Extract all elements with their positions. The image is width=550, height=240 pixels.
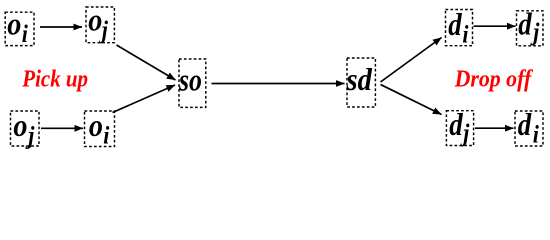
svg-text:i: i (462, 21, 469, 49)
svg-text:d: d (448, 8, 463, 43)
svg-text:o: o (89, 107, 103, 143)
svg-text:i: i (533, 121, 540, 149)
svg-text:sd: sd (346, 62, 373, 98)
svg-text:o: o (13, 107, 27, 143)
svg-text:Drop off: Drop off (454, 66, 534, 92)
svg-text:o: o (88, 2, 102, 38)
svg-text:Pick up: Pick up (21, 65, 88, 92)
svg-text:i: i (22, 21, 29, 49)
svg-text:d: d (518, 7, 533, 42)
svg-text:so: so (178, 63, 202, 98)
svg-text:d: d (518, 108, 533, 143)
svg-text:d: d (449, 108, 464, 143)
svg-text:i: i (103, 122, 110, 150)
svg-text:o: o (7, 6, 21, 42)
